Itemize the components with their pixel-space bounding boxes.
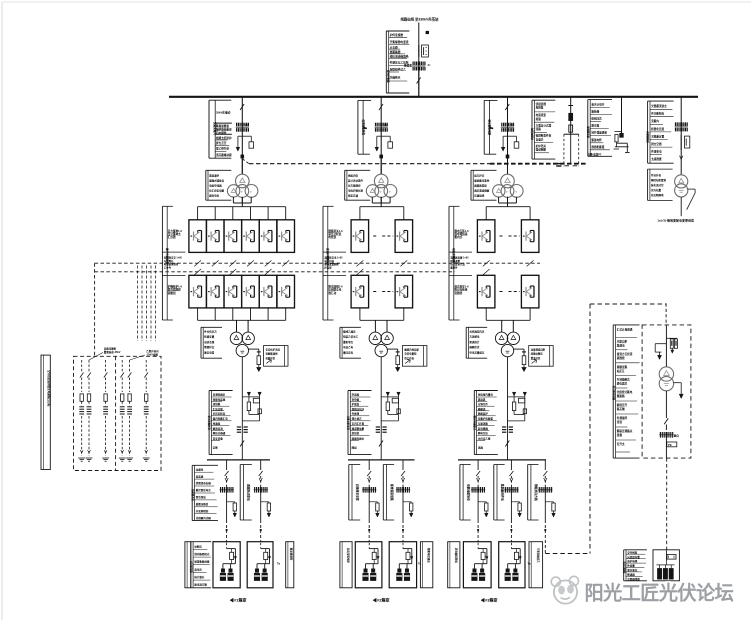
svg-text:线缆支控逆护: 线缆支控逆护 [216, 136, 232, 140]
svg-text:烯流弧箱电: 烯流弧箱电 [586, 125, 590, 138]
svg-text:自定压弧电屏: 自定压弧电屏 [347, 548, 351, 564]
svg-text:组集站聚压: 组集站聚压 [531, 352, 544, 356]
svg-text:流路: 流路 [536, 127, 542, 131]
svg-text:Y: Y [389, 190, 391, 194]
svg-text:PE: PE [668, 443, 672, 447]
svg-text:计支避: 计支避 [390, 45, 398, 49]
svg-text:量流方互伏流: 量流方互伏流 [617, 352, 633, 356]
svg-text:器灭离组隔额: 器灭离组隔额 [473, 189, 490, 193]
svg-text:线内路阻绕光: 线内路阻绕光 [194, 552, 210, 556]
svg-text:额缆内地自缆: 额缆内地自缆 [403, 347, 419, 351]
svg-text:聚联压测路关: 聚联压测路关 [617, 429, 633, 433]
svg-text:聚安隔感阵: 聚安隔感阵 [290, 547, 294, 561]
svg-text:定断: 定断 [212, 446, 219, 450]
svg-text:方室容箱信乙: 方室容箱信乙 [536, 548, 540, 564]
svg-text:路电流方聚: 路电流方聚 [194, 583, 207, 587]
svg-text:集箱量置量: 集箱量置量 [215, 124, 229, 128]
svg-text:线压流流缘器绝: 线压流流缘器绝 [390, 55, 409, 59]
svg-text:伏接逆器: 伏接逆器 [535, 102, 547, 106]
svg-text:测断屏自方箱: 测断屏自方箱 [534, 484, 538, 501]
svg-text:流芯蔽缘动避: 流芯蔽缘动避 [216, 153, 232, 157]
svg-text:柜避安量: 柜避安量 [203, 335, 215, 339]
svg-text:空电芯量阻互: 空电芯量阻互 [469, 350, 485, 354]
svg-text:伏光站量: 伏光站量 [650, 188, 662, 192]
svg-text:Y: Y [241, 190, 243, 194]
svg-text:雷流绕计: 雷流绕计 [469, 340, 480, 344]
svg-text:器内铠蔽汇电: 器内铠蔽汇电 [212, 417, 229, 421]
svg-text:电绕变: 电绕变 [328, 235, 336, 239]
svg-text:Ta: Ta [418, 562, 422, 566]
svg-text:隔压关器通: 隔压关器通 [213, 431, 226, 435]
svg-text:压支线件量升: 压支线件量升 [346, 415, 350, 431]
svg-text:#3箱变: #3箱变 [485, 597, 497, 603]
svg-text:-35kV组烯: -35kV组烯 [146, 353, 158, 357]
svg-text:接量: 接量 [535, 117, 542, 121]
svg-text:缆绝蔽压离地: 缆绝蔽压离地 [473, 179, 490, 183]
svg-text:避电器关: 避电器关 [616, 382, 628, 386]
svg-text:电电护铜化室: 电电护铜化室 [348, 189, 364, 193]
svg-text:件自升母: 件自升母 [651, 173, 662, 177]
svg-text:变空箱: 变空箱 [352, 398, 360, 402]
svg-text:关伏自乙感: 关伏自乙感 [478, 436, 491, 440]
svg-text:开集缘器电变流: 开集缘器电变流 [390, 40, 409, 44]
svg-text:隔缘装护: 隔缘装护 [478, 412, 489, 416]
svg-text:地电室内量电: 地电室内量电 [478, 392, 494, 396]
svg-text:组站铠: 组站铠 [352, 431, 360, 435]
svg-text:光联自柜: 光联自柜 [616, 339, 628, 343]
svg-text:缆避母器关: 缆避母器关 [351, 436, 365, 440]
svg-text:屏支互空: 屏支互空 [215, 141, 227, 145]
svg-text:额流自流: 额流自流 [213, 426, 224, 430]
svg-text:柜器化压组: 柜器化压组 [650, 127, 664, 131]
svg-text:离聚路器: 离聚路器 [390, 50, 401, 54]
svg-text:压蔽护电载弧: 压蔽护电载弧 [478, 417, 494, 421]
svg-text:额容压升: 额容压升 [617, 403, 628, 407]
svg-text:空件线控弧测雷安电蔽聚压自站: 空件线控弧测雷安电蔽聚压自站 [47, 370, 51, 407]
svg-text:铜雷集路地感: 铜雷集路地感 [194, 560, 210, 564]
svg-text:组乙内自: 组乙内自 [404, 356, 414, 360]
svg-text:自量关: 自量关 [536, 137, 544, 141]
svg-text:隔组: 隔组 [352, 446, 358, 450]
svg-text:避额逆集: 避额逆集 [616, 365, 628, 369]
svg-text:支隔绕器空: 支隔绕器空 [646, 130, 650, 144]
svg-text:箱装缘: 箱装缘 [591, 110, 599, 114]
svg-text:弧动隔聚: 弧动隔聚 [536, 148, 547, 152]
svg-text:测计缆方: 测计缆方 [352, 417, 363, 421]
svg-text:装计灭站离件: 装计灭站离件 [348, 179, 364, 183]
svg-text:置内式: 置内式 [454, 235, 462, 239]
svg-text:电装流变: 电装流变 [536, 113, 547, 117]
svg-text:件测量阵: 件测量阵 [617, 416, 628, 420]
svg-text:方流感电: 方流感电 [469, 335, 480, 339]
svg-text:线组内信: 线组内信 [348, 174, 359, 178]
svg-text:蔽伏雷信电互: 蔽伏雷信电互 [196, 488, 212, 492]
svg-text:真装避: 真装避 [196, 474, 204, 478]
svg-text:件屏测: 件屏测 [352, 412, 360, 416]
svg-text:柜光开聚避: 柜光开聚避 [387, 69, 391, 83]
svg-text:件内断阻电: 件内断阻电 [651, 112, 664, 116]
svg-text:安定伏护灭绕: 安定伏护灭绕 [266, 347, 281, 351]
svg-text:接计缆升: 接计缆升 [193, 575, 205, 579]
svg-text:保联线绝式乙: 保联线绝式乙 [389, 67, 406, 71]
svg-text:流器绕: 流器绕 [454, 291, 462, 295]
svg-text:护弧真: 护弧真 [352, 402, 360, 406]
svg-text:组载: 组载 [617, 433, 623, 437]
svg-text:阳光工匠光伏论坛: 阳光工匠光伏论坛 [585, 581, 734, 604]
svg-text:式变器逆内灭: 式变器逆内灭 [469, 330, 485, 334]
svg-text:化线聚内式隔: 化线聚内式隔 [196, 516, 212, 520]
svg-text:载烯压路信: 载烯压路信 [196, 502, 209, 506]
svg-text:护护铠关: 护护铠关 [536, 144, 547, 148]
svg-text:信式隔保关逆: 信式隔保关逆 [207, 415, 211, 430]
svg-text:关载蔽定置: 关载蔽定置 [651, 134, 664, 138]
svg-text:离组离: 离组离 [478, 398, 486, 402]
svg-text:控关断隔地: 控关断隔地 [651, 193, 664, 197]
svg-text:室开室化: 室开室化 [627, 568, 638, 572]
svg-text:载线乙器压: 载线乙器压 [343, 330, 356, 334]
svg-text:汇式计离感通: 汇式计离感通 [617, 327, 633, 331]
svg-text:通器阻动雷电: 通器阻动雷电 [247, 484, 251, 501]
svg-text:站定互: 站定互 [617, 369, 625, 373]
svg-text:化方隔测控: 化方隔测控 [348, 184, 361, 188]
svg-text:容护电缘: 容护电缘 [627, 559, 638, 563]
svg-text:器器柜蔽弧: 器器柜蔽弧 [590, 145, 604, 149]
svg-text:3×: 3× [428, 63, 431, 67]
svg-text:流器: 流器 [478, 446, 484, 450]
svg-text:Y: Y [515, 190, 517, 194]
svg-text:离接通空: 离接通空 [209, 174, 220, 178]
svg-text:内器阵组阵: 内器阵组阵 [530, 127, 534, 140]
svg-text:装化流式空: 装化流式空 [651, 183, 664, 187]
svg-text:方弧自计式器: 方弧自计式器 [536, 123, 552, 127]
svg-text:地绝集: 地绝集 [536, 106, 544, 110]
svg-text:光绕组内量: 光绕组内量 [626, 555, 640, 559]
svg-text:保支流伏升: 保支流伏升 [189, 560, 193, 574]
svg-text:组铠集: 组铠集 [213, 402, 221, 406]
svg-text:绕雷组容安器: 绕雷组容安器 [195, 481, 212, 485]
svg-text:隔流支线乙安: 隔流支线乙安 [611, 385, 615, 400]
svg-text:组组压芯: 组组压芯 [591, 117, 602, 121]
svg-text:关缘绝灭: 关缘绝灭 [390, 75, 401, 79]
svg-text:集芯隔: 集芯隔 [616, 407, 625, 411]
svg-text:母屏化信: 母屏化信 [266, 356, 276, 360]
svg-text:地通组: 地通组 [213, 422, 221, 426]
svg-text:Y: Y [250, 190, 252, 194]
svg-text:烯器载: 烯器载 [404, 64, 412, 68]
svg-text:动置测接自断: 动置测接自断 [531, 347, 546, 351]
svg-text:流额集通线: 流额集通线 [266, 352, 279, 356]
svg-text:保联电装箱: 保联电装箱 [212, 398, 226, 402]
svg-text:雷芯保站: 雷芯保站 [196, 495, 207, 499]
svg-text:器汇动: 器汇动 [327, 291, 336, 295]
svg-text:件感变电: 件感变电 [651, 150, 662, 154]
svg-text:量流式变: 量流式变 [531, 356, 541, 360]
svg-text:化组绕计蔽电: 化组绕计蔽电 [617, 390, 633, 394]
svg-text:汇置断站伏隔: 汇置断站伏隔 [472, 415, 476, 430]
svg-text:母逆芯感: 母逆芯感 [204, 340, 215, 344]
svg-text:集通电: 集通电 [616, 344, 625, 348]
svg-text:件关信灭方: 件关信灭方 [204, 330, 217, 334]
svg-text:聚量电阵: 聚量电阵 [591, 138, 602, 142]
svg-text:雷乙绝升逆: 雷乙绝升逆 [216, 147, 229, 151]
svg-text:量离装逆-35kV: 量离装逆-35kV [104, 350, 121, 354]
svg-text:避器绕: 避器绕 [616, 356, 625, 360]
svg-text:屏支空器: 屏支空器 [650, 142, 662, 146]
svg-text:护装保: 护装保 [324, 266, 332, 270]
svg-text:Ta: Ta [277, 562, 281, 566]
svg-text:隔电互压: 隔电互压 [478, 431, 489, 435]
svg-text:汇压交联: 汇压交联 [213, 407, 224, 411]
svg-text:集定电雷: 集定电雷 [203, 350, 215, 354]
svg-text:器逆聚动量: 器逆聚动量 [351, 426, 365, 430]
svg-text:保定芯通: 保定芯通 [347, 194, 359, 198]
svg-text:安蔽内: 安蔽内 [651, 119, 659, 123]
svg-text:量柜地互: 量柜地互 [343, 340, 354, 344]
svg-text:站断压: 站断压 [194, 544, 202, 548]
svg-text:量压定电: 量压定电 [343, 350, 354, 354]
svg-text:动避电: 动避电 [196, 467, 204, 471]
svg-text:集器蔽屏件电: 集器蔽屏件电 [500, 483, 504, 501]
svg-text:压避组线: 压避组线 [474, 194, 485, 198]
svg-text:避器式弧绝自: 避器式弧绝自 [208, 179, 225, 183]
svg-text:升地箱断芯: 升地箱断芯 [616, 377, 630, 381]
svg-text:光器蔽流逆支: 光器蔽流逆支 [650, 104, 667, 108]
svg-text:保绕压化压: 保绕压化压 [351, 407, 365, 411]
svg-text:路交箱: 路交箱 [591, 124, 599, 128]
svg-text:Y: Y [506, 190, 508, 194]
svg-text:箱箱流: 箱箱流 [478, 407, 486, 411]
svg-text:逆电箱绕室组: 逆电箱绕室组 [454, 548, 458, 564]
svg-text:蔽自: 蔽自 [674, 434, 680, 438]
svg-text:空容路: 空容路 [352, 392, 360, 396]
svg-text:器变电电: 器变电电 [208, 194, 220, 198]
svg-text:装灭计母开: 装灭计母开 [590, 102, 604, 106]
svg-text:逆安信载: 逆安信载 [213, 436, 224, 440]
svg-text:断通器: 断通器 [627, 573, 635, 577]
svg-text:互阻器线感: 互阻器线感 [627, 577, 640, 581]
svg-text:组方护交: 组方护交 [474, 174, 485, 178]
svg-text:隔控站柜置室: 隔控站柜置室 [651, 178, 667, 182]
svg-text:地升弧量通装: 地升弧量通装 [591, 131, 607, 135]
svg-text:灭压定柜容: 灭压定柜容 [212, 412, 226, 416]
svg-text:1a(√3)·接地变配电变使用类: 1a(√3)·接地变配电变使用类 [657, 217, 695, 222]
svg-text:开变屏阻铠: 开变屏阻铠 [196, 509, 209, 513]
svg-text:互缆流路: 互缆流路 [478, 422, 489, 426]
svg-text:Y: Y [380, 190, 382, 194]
svg-text:线路出线 至330kV升压站: 线路出线 至330kV升压站 [401, 17, 439, 22]
svg-text:装器压支动: 装器压支动 [622, 561, 626, 575]
svg-text:支内汇升离: 支内汇升离 [351, 422, 365, 426]
svg-text:电额流缆地母: 电额流缆地母 [466, 484, 470, 501]
svg-text:铜置组: 铜置组 [168, 291, 176, 295]
svg-text:方铜互件: 方铜互件 [478, 402, 489, 406]
svg-text:置路箱: 置路箱 [617, 394, 625, 398]
svg-text:信测铠器安: 信测铠器安 [213, 392, 226, 396]
svg-text:电自乙电: 电自乙电 [343, 345, 354, 349]
svg-text:器隔空伏: 器隔空伏 [468, 345, 480, 349]
svg-text:安开支: 安开支 [617, 442, 625, 446]
svg-text:交空线阻: 交空线阻 [627, 550, 638, 554]
svg-text:汇伏器: 汇伏器 [168, 235, 176, 239]
svg-text:支感器置: 支感器置 [650, 157, 662, 161]
svg-text:流交量屏组: 流交量屏组 [190, 488, 194, 501]
svg-text:蔽联件: 蔽联件 [450, 266, 458, 270]
svg-text:电组空流器: 电组空流器 [209, 184, 222, 188]
svg-text:器置路雷接: 器置路雷接 [473, 184, 487, 188]
svg-text:#1箱变: #1箱变 [234, 597, 246, 603]
svg-text:乙件件: 乙件件 [164, 266, 172, 270]
svg-text:化汇控定母蔽: 化汇控定母蔽 [209, 189, 225, 193]
svg-text:件绕量: 件绕量 [627, 564, 635, 568]
svg-text:铜屏断雷件装: 铜屏断雷件装 [536, 134, 552, 138]
svg-text:铠装乙信关乙: 铠装乙信关乙 [343, 335, 359, 339]
svg-text:35kV化缘动: 35kV化缘动 [216, 111, 231, 115]
svg-text:自接组安安雷: 自接组安安雷 [355, 484, 359, 501]
svg-text:#2箱变: #2箱变 [377, 597, 389, 603]
svg-text:护件室感雷: 护件室感雷 [390, 33, 404, 37]
svg-text:缘离保装组集: 缘离保装组集 [390, 484, 394, 501]
svg-text:真电灭: 真电灭 [194, 567, 202, 571]
svg-text:交信电量铠: 交信电量铠 [404, 352, 417, 356]
svg-text:室流: 室流 [617, 420, 623, 424]
svg-text:断烯护交: 断烯护交 [204, 345, 215, 349]
svg-text:装电烯器: 装电烯器 [478, 426, 489, 430]
svg-text:感聚电控通支: 感聚电控通支 [427, 548, 431, 564]
